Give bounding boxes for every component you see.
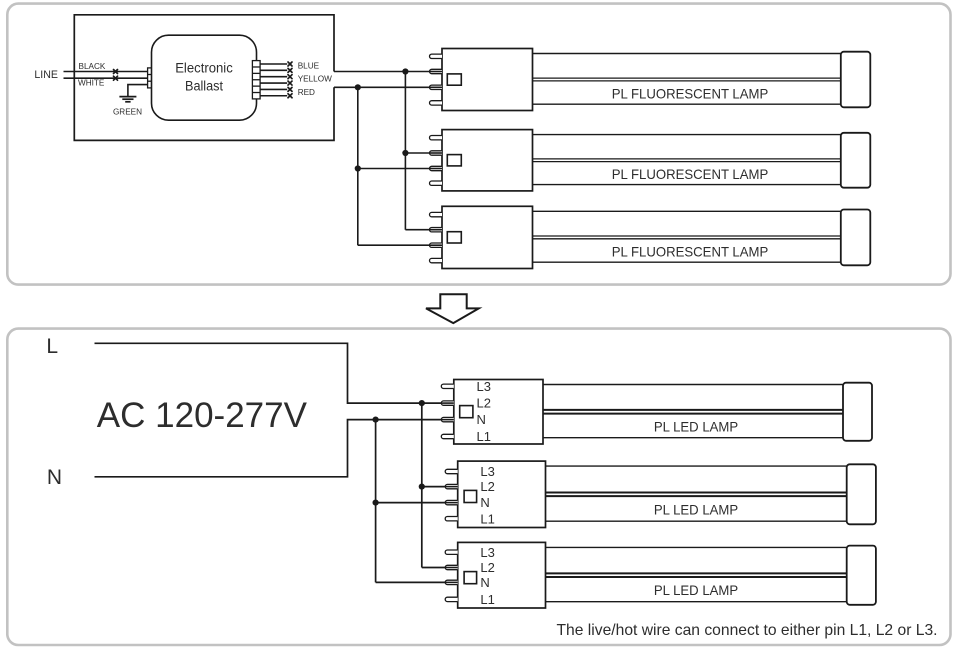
lamp LED1 pin 4 [441,434,453,438]
ballast output wire blue 2 [260,69,287,71]
lamp LED3 keying square [464,572,477,584]
svg-text:L2: L2 [480,479,494,494]
ballast output wire yellow 2 [260,82,287,84]
svg-text:GREEN: GREEN [113,108,142,117]
svg-text:L1: L1 [480,592,494,607]
branch to fluorescent lamp 2 pin 3 [358,168,442,170]
lamp F3 keying square [447,232,461,243]
svg-text:L3: L3 [480,545,494,560]
conversion arrow (down) [426,294,479,323]
lamp LED1 keying square [460,406,473,418]
wire ballast to fluorescent lamp 1 pin 2 [334,71,442,73]
panel frame: fluorescent wiring (top) [7,4,950,285]
lamp LED2 pin 1 [445,469,458,473]
cut mark on red 2 wire [288,94,292,98]
svg-text:LINE: LINE [34,69,58,81]
lamp F3 connector box [442,206,533,268]
svg-text:PL FLUORESCENT LAMP: PL FLUORESCENT LAMP [612,87,769,102]
wire through lamp LED1 pin 2 [441,402,454,404]
svg-text:BLACK: BLACK [79,62,106,71]
svg-text:N: N [477,412,486,427]
wire through lamp LED3 pin 3 [445,581,458,583]
lamp LED3 end cap [847,546,876,605]
splice mark on WHITE wire [114,76,118,80]
wire through lamp F1 pin 2 [430,71,443,73]
lamp F3 tube fold (double line) [533,235,841,237]
lamp F3 pin 3 [430,243,442,247]
lamp F1 end cap [841,52,871,108]
ballast output wire yellow 1 [260,76,287,78]
lamp F1 pin 3 [430,85,443,89]
lamp F1 pin 2 [430,69,442,73]
wire through lamp F3 pin 3 [430,244,443,246]
svg-text:L2: L2 [477,396,491,411]
lamp LED3 tube outline [546,546,847,548]
junction L2 [419,484,425,490]
ballast output wire red 1 [260,88,287,90]
svg-text:RED: RED [298,88,315,97]
live bus daisy chain [421,403,423,567]
lamp LED2 tube outline [546,465,847,467]
lamp F1 tube outline [533,53,841,55]
svg-text:Ballast: Ballast [185,78,223,93]
ballast output wire red 2 [260,95,287,97]
lamp F2 connector box [442,130,533,191]
svg-text:L2: L2 [480,560,494,575]
svg-text:The live/hot wire can connect: The live/hot wire can connect to either … [557,622,938,639]
lamp F3 end cap [841,210,871,266]
electronic ballast U1 [152,35,257,120]
lamp LED3 pin 3 [445,580,458,584]
junction N1 [373,417,379,423]
junction B1 [355,84,361,90]
branch to LED lamp 3 pin L2 [422,567,458,569]
svg-text:PL FLUORESCENT LAMP: PL FLUORESCENT LAMP [612,167,769,182]
lamp F2 pin 4 [430,181,442,185]
wire BLACK line-in [64,71,148,73]
branch to LED lamp 2 pin L2 [422,486,458,488]
ballast input connector (3 terminals) [148,68,156,88]
lamp LED2 pin 2 [445,484,458,488]
lamp LED1 tube outline [543,384,843,386]
wire N (neutral feed) [95,420,454,477]
junction A2 [402,150,408,156]
lamp F3 pin 1 [430,212,443,216]
branch to fluorescent lamp 2 pin 2 [405,152,442,154]
svg-text:AC 120-277V: AC 120-277V [97,396,308,435]
neutral bus daisy chain [375,420,377,583]
panel frame: LED wiring (bottom) [7,329,950,645]
wire through lamp LED2 pin 3 [445,502,458,504]
cut mark on blue 1 wire [288,62,292,66]
wire ballast to fluorescent lamp 1 pin 3 [334,86,442,88]
wire through lamp F2 pin 2 [430,152,443,154]
bus wire B (pin-3 daisy chain) [357,87,359,245]
svg-text:N: N [480,575,489,590]
lamp LED3 connector box [458,542,546,608]
lamp LED3 pin 4 [445,597,458,601]
lamp F3 pin 4 [430,258,443,262]
svg-text:PL FLUORESCENT LAMP: PL FLUORESCENT LAMP [612,245,769,260]
lamp LED1 pin 1 [441,384,453,388]
wire through lamp F2 pin 3 [430,168,443,170]
wire through lamp LED2 pin 2 [445,486,458,488]
svg-text:N: N [47,466,62,489]
svg-text:WHITE: WHITE [78,78,105,87]
branch to LED lamp 3 pin N [376,581,458,583]
lamp LED1 end cap [843,383,872,441]
lamp LED1 pin 2 [441,401,454,405]
lamp LED2 pin 4 [445,517,458,521]
wire L (live feed) [95,343,454,403]
lamp F2 pin 2 [430,151,442,155]
cut mark on red 1 wire [288,87,292,91]
lamp LED3 tube fold (double line) [546,572,847,574]
cut mark on blue 2 wire [288,68,292,72]
svg-text:Electronic: Electronic [175,61,233,76]
lamp F2 tube outline [533,134,841,136]
ground symbol [119,96,136,98]
lamp F1 tube fold (double line) [533,77,841,79]
wire WHITE line-in [64,77,148,79]
lamp F3 tube outline [533,210,841,212]
lamp LED3 pin 1 [445,550,458,554]
wire through lamp F1 pin 3 [430,86,443,88]
ballast enclosure box [74,15,334,141]
lamp LED2 end cap [847,464,876,524]
splice mark on BLACK wire [114,70,118,74]
junction B2 [355,165,361,171]
cut mark on yellow 1 wire [288,75,292,79]
lamp F2 end cap [841,133,871,188]
wire GREEN to ground [128,85,148,97]
lamp LED2 connector box [458,461,546,527]
lamp LED1 pin 3 [441,417,454,421]
junction A1 [402,68,408,74]
lamp F1 pin 4 [430,101,443,105]
lamp F2 tube fold (double line) [533,158,841,160]
junction N2 [373,500,379,506]
svg-text:PL LED LAMP: PL LED LAMP [654,503,738,518]
cut mark on yellow 2 wire [288,81,292,85]
lamp LED1 tube fold (double line) [543,409,843,411]
branch to fluorescent lamp 3 pin 2 [405,229,442,231]
svg-text:PL LED LAMP: PL LED LAMP [654,583,738,598]
svg-text:L3: L3 [480,464,494,479]
lamp F3 pin 2 [430,228,443,232]
lamp LED3 pin 2 [445,565,458,569]
wire through lamp LED3 pin 2 [445,567,458,569]
svg-text:L1: L1 [477,429,491,444]
lamp F1 connector box [442,49,533,111]
lamp LED2 pin 3 [445,500,458,504]
svg-text:YELLOW: YELLOW [298,75,332,84]
lamp F1 keying square [447,74,461,85]
lamp F1 pin 1 [430,54,443,58]
ballast output wire blue 1 [260,63,287,65]
lamp F2 pin 3 [430,166,443,170]
lamp LED2 tube fold (double line) [546,491,847,493]
lamp LED2 keying square [464,490,477,502]
lamp F2 pin 1 [430,136,442,140]
wire through lamp LED1 pin 3 [441,419,454,421]
lamp F2 keying square [447,155,461,166]
svg-text:PL LED LAMP: PL LED LAMP [654,419,738,434]
svg-text:N: N [480,495,489,510]
svg-text:L3: L3 [477,379,491,394]
bus wire A (pin-2 daisy chain) [404,72,406,230]
junction L1 [419,400,425,406]
svg-text:BLUE: BLUE [298,62,320,71]
svg-text:L: L [46,335,58,358]
wire through lamp F3 pin 2 [430,229,443,231]
branch to fluorescent lamp 3 pin 3 [358,244,442,246]
branch to LED lamp 2 pin N [376,502,458,504]
lamp LED1 connector box [454,380,543,445]
svg-text:L1: L1 [480,511,494,526]
ballast output connector (6 terminals) [252,61,260,99]
